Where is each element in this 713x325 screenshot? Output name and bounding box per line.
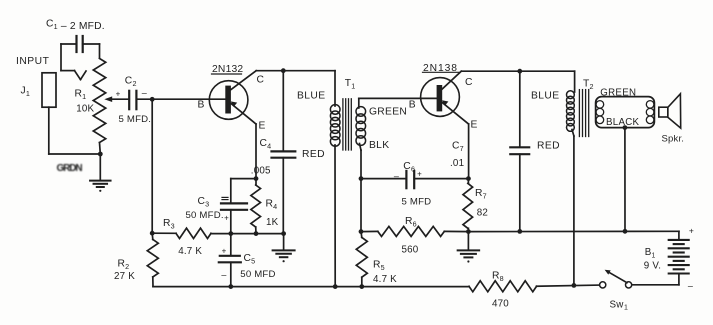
svg-text:Spkr.: Spkr. xyxy=(662,134,685,145)
svg-text:5 MFD: 5 MFD xyxy=(402,196,432,207)
svg-text:C: C xyxy=(465,77,473,88)
svg-text:GREEN: GREEN xyxy=(369,107,407,118)
svg-text:2N132: 2N132 xyxy=(212,64,243,75)
svg-text:–: – xyxy=(688,281,693,291)
svg-text:BLUE: BLUE xyxy=(531,91,560,102)
svg-text:4.7 K: 4.7 K xyxy=(373,274,397,285)
svg-text:560: 560 xyxy=(402,244,419,255)
svg-text:.005: .005 xyxy=(251,166,271,177)
svg-text:10K: 10K xyxy=(76,104,94,115)
svg-text:GRDN: GRDN xyxy=(57,163,83,174)
svg-text:5 MFD.: 5 MFD. xyxy=(119,114,152,125)
svg-text:27 K: 27 K xyxy=(114,271,135,282)
svg-text:+: + xyxy=(689,226,694,236)
svg-text:2N138: 2N138 xyxy=(423,63,458,74)
svg-text:B: B xyxy=(198,100,205,111)
svg-text:INPUT: INPUT xyxy=(16,56,50,67)
svg-text:–: – xyxy=(394,171,399,181)
svg-text:1: 1 xyxy=(624,305,628,312)
svg-text:82: 82 xyxy=(477,207,488,218)
svg-text:BLK: BLK xyxy=(369,140,389,151)
svg-text:E: E xyxy=(259,120,266,131)
svg-text:BLACK: BLACK xyxy=(606,117,640,128)
svg-text:+: + xyxy=(417,170,422,179)
svg-text:E: E xyxy=(471,120,478,131)
svg-text:RED: RED xyxy=(302,149,325,160)
svg-text:4.7 K: 4.7 K xyxy=(178,246,202,257)
svg-text:B: B xyxy=(409,100,416,111)
svg-text:BLUE: BLUE xyxy=(297,91,326,102)
svg-text:–: – xyxy=(142,88,147,98)
svg-text:C: C xyxy=(257,75,265,86)
svg-text:+: + xyxy=(116,90,121,99)
svg-text:.01: .01 xyxy=(450,158,464,169)
svg-text:50 MFD.: 50 MFD. xyxy=(186,210,224,221)
svg-text:Sw: Sw xyxy=(610,300,625,311)
svg-text:–: – xyxy=(221,269,226,279)
svg-text:RED: RED xyxy=(537,141,560,152)
svg-text:GREEN: GREEN xyxy=(600,87,636,98)
svg-text:1K: 1K xyxy=(266,217,279,228)
svg-text:50 MFD: 50 MFD xyxy=(240,269,275,280)
svg-text:470: 470 xyxy=(492,298,509,309)
svg-text:9 V.: 9 V. xyxy=(644,261,661,272)
svg-text:+: + xyxy=(224,214,229,223)
svg-text:+: + xyxy=(222,247,227,256)
